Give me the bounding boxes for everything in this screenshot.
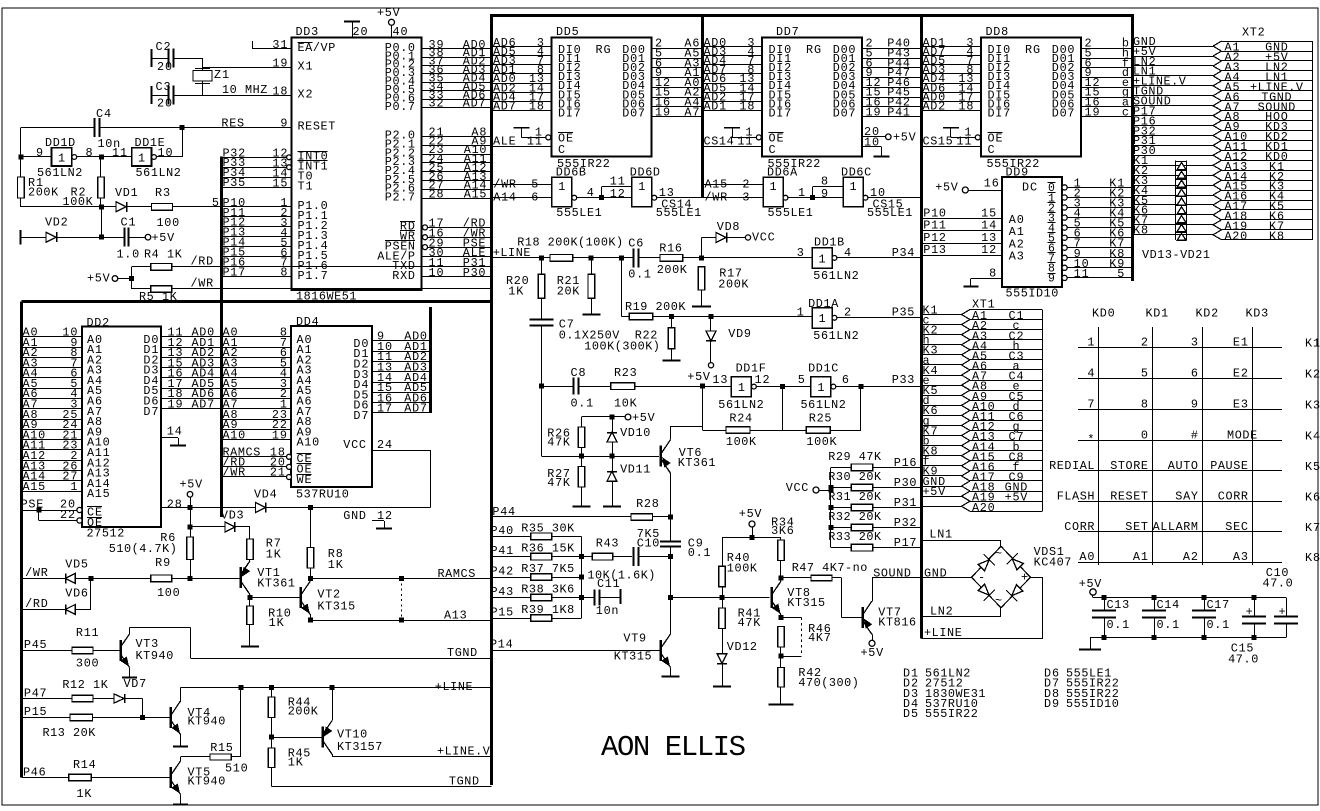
svg-text:7: 7 bbox=[1087, 398, 1094, 412]
svg-text:0.1: 0.1 bbox=[571, 397, 594, 411]
svg-text:1K: 1K bbox=[328, 558, 344, 572]
svg-text:R15: R15 bbox=[210, 741, 233, 755]
svg-text:P42: P42 bbox=[491, 565, 514, 579]
svg-text:VD7: VD7 bbox=[124, 677, 147, 691]
svg-text:28: 28 bbox=[167, 497, 182, 511]
svg-text:+5V: +5V bbox=[687, 370, 711, 384]
svg-text:561LN2: 561LN2 bbox=[813, 269, 858, 283]
svg-text:RESET: RESET bbox=[298, 120, 336, 134]
svg-text:561LN2: 561LN2 bbox=[813, 329, 858, 343]
svg-text:SAY: SAY bbox=[1175, 489, 1198, 503]
svg-text:P30: P30 bbox=[463, 266, 486, 280]
svg-text:A2: A2 bbox=[1183, 550, 1198, 564]
svg-text:19: 19 bbox=[1085, 105, 1100, 119]
svg-text:VCC: VCC bbox=[786, 481, 809, 495]
svg-text:VD1: VD1 bbox=[115, 186, 138, 200]
svg-text:12: 12 bbox=[755, 373, 770, 387]
svg-text:E2: E2 bbox=[1233, 366, 1248, 380]
svg-text:40: 40 bbox=[393, 25, 408, 39]
svg-text:561LN2: 561LN2 bbox=[136, 166, 181, 180]
svg-text:R24: R24 bbox=[729, 412, 752, 426]
svg-text:R36 15K: R36 15K bbox=[521, 542, 575, 556]
svg-text:561LN2: 561LN2 bbox=[37, 166, 82, 180]
svg-text:R47 4K7-no: R47 4K7-no bbox=[792, 561, 868, 575]
svg-text:~: ~ bbox=[995, 594, 1002, 608]
svg-text:DD8: DD8 bbox=[986, 25, 1009, 39]
svg-text:VD5: VD5 bbox=[65, 558, 88, 572]
svg-text:RESET: RESET bbox=[1110, 489, 1148, 503]
svg-text:A7: A7 bbox=[684, 105, 699, 119]
svg-text:DD3: DD3 bbox=[296, 25, 319, 39]
svg-text:D07: D07 bbox=[1052, 107, 1075, 121]
svg-text:200K: 200K bbox=[28, 186, 59, 200]
svg-text:100K: 100K bbox=[806, 435, 837, 449]
svg-text:REDIAL: REDIAL bbox=[1049, 459, 1094, 473]
svg-text:1: 1 bbox=[849, 180, 856, 194]
svg-text:18: 18 bbox=[739, 100, 754, 114]
svg-text:0: 0 bbox=[1141, 429, 1148, 443]
svg-text:C8: C8 bbox=[571, 366, 586, 380]
svg-text:3K6: 3K6 bbox=[771, 524, 794, 538]
svg-text:SET: SET bbox=[1125, 520, 1148, 534]
svg-text:VD12: VD12 bbox=[727, 640, 757, 654]
svg-text:11: 11 bbox=[112, 146, 127, 160]
svg-text:RG: RG bbox=[596, 43, 611, 57]
svg-text:K1: K1 bbox=[1305, 336, 1320, 350]
svg-text:DD9: DD9 bbox=[1006, 166, 1029, 180]
svg-text:KT3157: KT3157 bbox=[337, 740, 382, 754]
svg-text:AD2: AD2 bbox=[923, 100, 946, 114]
svg-text:C14: C14 bbox=[1157, 598, 1180, 612]
svg-text:FLASH: FLASH bbox=[1057, 489, 1095, 503]
svg-text:R31 20K: R31 20K bbox=[828, 490, 882, 504]
svg-text:5: 5 bbox=[1141, 366, 1148, 380]
svg-text:~: ~ bbox=[995, 547, 1002, 561]
svg-text:10K: 10K bbox=[614, 397, 638, 411]
svg-text:18: 18 bbox=[529, 100, 544, 114]
svg-text:1: 1 bbox=[818, 312, 825, 326]
svg-text:5: 5 bbox=[531, 177, 538, 191]
svg-text:+: + bbox=[1279, 606, 1286, 619]
svg-text:C10: C10 bbox=[637, 537, 660, 551]
svg-text:DD4: DD4 bbox=[296, 315, 319, 329]
svg-text:KT315: KT315 bbox=[317, 600, 355, 614]
svg-text:-: - bbox=[978, 571, 985, 585]
svg-text:CS15: CS15 bbox=[873, 198, 903, 212]
svg-text:16: 16 bbox=[984, 177, 999, 191]
svg-text:1K: 1K bbox=[76, 787, 92, 801]
svg-text:555ID10: 555ID10 bbox=[1066, 697, 1119, 711]
svg-text:A15: A15 bbox=[705, 177, 728, 191]
svg-text:100: 100 bbox=[157, 216, 180, 230]
svg-text:RG: RG bbox=[1025, 43, 1040, 57]
svg-text:CS14: CS14 bbox=[704, 135, 734, 149]
svg-text:9: 9 bbox=[280, 117, 287, 131]
svg-text:A0: A0 bbox=[1079, 550, 1094, 564]
svg-text:KD0: KD0 bbox=[1092, 307, 1115, 321]
svg-text:1K: 1K bbox=[266, 548, 282, 562]
svg-text:P17: P17 bbox=[894, 536, 917, 550]
svg-text:13: 13 bbox=[712, 373, 727, 387]
svg-text:P17: P17 bbox=[223, 265, 246, 279]
svg-text:KT816: KT816 bbox=[878, 616, 916, 630]
svg-text:1: 1 bbox=[738, 381, 745, 395]
svg-text:DD1C: DD1C bbox=[808, 362, 838, 376]
svg-text:+5V: +5V bbox=[87, 272, 111, 286]
svg-text:P1.7: P1.7 bbox=[298, 269, 328, 283]
svg-text:A10: A10 bbox=[223, 428, 246, 442]
svg-text:9: 9 bbox=[36, 146, 43, 160]
svg-text:1816WE51: 1816WE51 bbox=[296, 290, 357, 304]
svg-text:D9: D9 bbox=[1044, 697, 1059, 711]
svg-text:DI7: DI7 bbox=[988, 107, 1011, 121]
svg-text:ALE: ALE bbox=[493, 135, 516, 149]
svg-text:R3: R3 bbox=[155, 186, 170, 200]
svg-text:47K: 47K bbox=[738, 616, 762, 630]
svg-text:C: C bbox=[769, 143, 776, 157]
svg-text:RXD: RXD bbox=[392, 269, 415, 283]
svg-text:8: 8 bbox=[1141, 398, 1148, 412]
svg-text:KT940: KT940 bbox=[188, 715, 226, 729]
svg-text:+5V: +5V bbox=[632, 411, 656, 425]
svg-text:P35: P35 bbox=[892, 306, 915, 320]
svg-text:K6: K6 bbox=[1305, 490, 1320, 504]
svg-text:A3: A3 bbox=[1009, 250, 1024, 264]
svg-text:R29 47K: R29 47K bbox=[828, 450, 882, 464]
svg-text:STORE: STORE bbox=[1110, 459, 1148, 473]
svg-text:11: 11 bbox=[1074, 267, 1089, 281]
svg-text:P15: P15 bbox=[491, 606, 514, 620]
svg-text:E1: E1 bbox=[1233, 335, 1248, 349]
svg-text:510: 510 bbox=[225, 762, 248, 776]
svg-text:VD2: VD2 bbox=[45, 216, 68, 230]
svg-text:+5V: +5V bbox=[923, 485, 947, 499]
svg-text:C3: C3 bbox=[156, 80, 171, 94]
svg-text:CS14: CS14 bbox=[661, 198, 691, 212]
svg-text:R11: R11 bbox=[76, 626, 99, 640]
svg-text:/WR: /WR bbox=[223, 466, 246, 480]
svg-text:KD3: KD3 bbox=[1246, 307, 1269, 321]
svg-text:11: 11 bbox=[956, 135, 971, 149]
svg-text:537RU10: 537RU10 bbox=[296, 488, 349, 502]
svg-text:KT361: KT361 bbox=[678, 456, 716, 470]
svg-text:KC407: KC407 bbox=[1034, 556, 1072, 570]
svg-text:A1: A1 bbox=[1133, 550, 1148, 564]
svg-text:C17: C17 bbox=[1207, 598, 1230, 612]
svg-text:1: 1 bbox=[798, 186, 805, 200]
svg-text:300: 300 bbox=[76, 657, 99, 671]
svg-text:R19 200K: R19 200K bbox=[625, 300, 686, 314]
svg-text:DD5: DD5 bbox=[556, 25, 579, 39]
svg-text:R43: R43 bbox=[596, 537, 619, 551]
svg-text:47.0: 47.0 bbox=[1228, 653, 1258, 667]
svg-text:AD7: AD7 bbox=[404, 402, 427, 416]
svg-text:XT2: XT2 bbox=[1242, 26, 1265, 40]
svg-text:1: 1 bbox=[1087, 335, 1094, 349]
svg-text:1: 1 bbox=[138, 152, 145, 166]
svg-text:2: 2 bbox=[742, 177, 749, 191]
svg-text:E3: E3 bbox=[1233, 398, 1248, 412]
svg-text:VD13-VD21: VD13-VD21 bbox=[1142, 248, 1210, 262]
svg-text:GND: GND bbox=[924, 567, 947, 581]
svg-text:R38 3K6: R38 3K6 bbox=[521, 583, 574, 597]
svg-text:D5: D5 bbox=[903, 707, 918, 721]
svg-text:MODE: MODE bbox=[1227, 429, 1257, 443]
svg-text:DI7: DI7 bbox=[558, 107, 581, 121]
svg-text:+LINE.V: +LINE.V bbox=[437, 745, 491, 759]
svg-text:20: 20 bbox=[157, 97, 172, 111]
svg-text:11: 11 bbox=[737, 135, 752, 149]
svg-text:SEC: SEC bbox=[1225, 520, 1248, 534]
svg-text:19: 19 bbox=[272, 57, 287, 71]
svg-text:10: 10 bbox=[158, 146, 173, 160]
svg-text:19: 19 bbox=[866, 105, 881, 119]
svg-text:RAMCS: RAMCS bbox=[438, 567, 476, 581]
svg-text:R32 20K: R32 20K bbox=[828, 510, 882, 524]
svg-text:VD3: VD3 bbox=[221, 509, 244, 523]
svg-text:15: 15 bbox=[272, 176, 287, 190]
svg-text:KT315: KT315 bbox=[787, 596, 825, 610]
svg-text:561LN2: 561LN2 bbox=[718, 398, 763, 412]
svg-text:32: 32 bbox=[429, 97, 444, 111]
svg-text:A15: A15 bbox=[464, 187, 487, 201]
svg-text:470(300): 470(300) bbox=[798, 676, 859, 690]
svg-text:CORR: CORR bbox=[1064, 520, 1094, 534]
svg-text:+5V: +5V bbox=[377, 6, 401, 20]
svg-text:*: * bbox=[1087, 433, 1094, 447]
svg-text:X2: X2 bbox=[298, 88, 313, 102]
svg-text:KD1: KD1 bbox=[1146, 307, 1169, 321]
svg-text:KT361: KT361 bbox=[257, 577, 295, 591]
svg-text:GND: GND bbox=[343, 509, 366, 523]
svg-text:RES: RES bbox=[221, 117, 244, 131]
svg-text:K5: K5 bbox=[1305, 460, 1320, 474]
svg-text:3: 3 bbox=[1191, 335, 1198, 349]
svg-text:R35 30K: R35 30K bbox=[521, 521, 575, 535]
svg-text:19: 19 bbox=[272, 428, 287, 442]
svg-text:+5V: +5V bbox=[152, 231, 176, 245]
svg-text:4: 4 bbox=[844, 246, 851, 260]
svg-text:1: 1 bbox=[638, 180, 645, 194]
svg-text:R30 20K: R30 20K bbox=[828, 470, 882, 484]
svg-text:C4: C4 bbox=[96, 107, 111, 121]
svg-text:18: 18 bbox=[958, 100, 973, 114]
svg-text:PAUSE: PAUSE bbox=[1210, 459, 1248, 473]
svg-text:P33: P33 bbox=[892, 373, 915, 387]
svg-text:1: 1 bbox=[558, 180, 565, 194]
svg-text:1.0: 1.0 bbox=[117, 248, 140, 262]
svg-text:R4 1K: R4 1K bbox=[144, 248, 183, 262]
svg-text:Z1: Z1 bbox=[214, 68, 229, 82]
svg-text:C1: C1 bbox=[121, 216, 136, 230]
svg-text:K3: K3 bbox=[1305, 399, 1320, 413]
svg-text:1K: 1K bbox=[269, 616, 285, 630]
svg-text:AD1: AD1 bbox=[704, 100, 727, 114]
svg-text:A15: A15 bbox=[23, 480, 46, 494]
svg-text:21: 21 bbox=[270, 466, 285, 480]
svg-text:D7: D7 bbox=[143, 405, 158, 419]
svg-text:200K: 200K bbox=[657, 263, 688, 277]
svg-text:200K: 200K bbox=[718, 278, 749, 292]
svg-text:/WR: /WR bbox=[705, 190, 728, 204]
svg-text:KT315: KT315 bbox=[614, 650, 652, 664]
svg-text:AUTO: AUTO bbox=[1168, 459, 1198, 473]
svg-text:555LE1: 555LE1 bbox=[768, 206, 813, 220]
svg-text:200K: 200K bbox=[288, 705, 319, 719]
svg-text:AON ELLIS: AON ELLIS bbox=[601, 731, 746, 764]
svg-text:D07: D07 bbox=[833, 107, 856, 121]
svg-text:TGND: TGND bbox=[449, 775, 479, 789]
svg-text:A15: A15 bbox=[87, 487, 110, 501]
svg-text:/RD: /RD bbox=[191, 255, 214, 269]
svg-text:2: 2 bbox=[844, 306, 851, 320]
svg-text:R18 200K(100K): R18 200K(100K) bbox=[517, 236, 623, 250]
svg-text:8: 8 bbox=[280, 266, 287, 280]
svg-text:SOUND: SOUND bbox=[873, 567, 911, 581]
svg-text:4: 4 bbox=[587, 186, 594, 200]
svg-text:P2.7: P2.7 bbox=[385, 191, 415, 205]
svg-text:510(4.7K): 510(4.7K) bbox=[109, 542, 177, 556]
svg-text:VCC: VCC bbox=[343, 438, 366, 452]
svg-text:0.1: 0.1 bbox=[1107, 618, 1130, 632]
svg-text:14: 14 bbox=[167, 425, 182, 439]
svg-text:8: 8 bbox=[86, 146, 93, 160]
svg-text:c: c bbox=[1122, 105, 1129, 119]
svg-text:2: 2 bbox=[1141, 335, 1148, 349]
svg-text:K2: K2 bbox=[1305, 367, 1320, 381]
svg-text:5: 5 bbox=[798, 373, 805, 387]
svg-text:R16: R16 bbox=[659, 242, 682, 256]
svg-text:561LN2: 561LN2 bbox=[801, 398, 846, 412]
svg-text:VCC: VCC bbox=[752, 231, 775, 245]
svg-text:P35: P35 bbox=[223, 176, 246, 190]
svg-text:R14: R14 bbox=[73, 758, 96, 772]
svg-text:/WR: /WR bbox=[493, 177, 516, 191]
svg-text:555LE1: 555LE1 bbox=[556, 206, 601, 220]
svg-text:R12 1K: R12 1K bbox=[62, 678, 108, 692]
svg-text:100K(300K): 100K(300K) bbox=[584, 340, 660, 354]
svg-text:VD6: VD6 bbox=[65, 587, 88, 601]
svg-text:VD10: VD10 bbox=[620, 426, 650, 440]
svg-text:/WR: /WR bbox=[191, 277, 214, 291]
svg-text:AD7: AD7 bbox=[463, 97, 486, 111]
svg-text:P41: P41 bbox=[887, 105, 910, 119]
svg-text:A20: A20 bbox=[972, 501, 995, 515]
svg-text:X1: X1 bbox=[298, 60, 313, 74]
svg-text:+5V: +5V bbox=[1079, 577, 1103, 591]
svg-text:11: 11 bbox=[527, 135, 542, 149]
svg-text:R25: R25 bbox=[809, 412, 832, 426]
svg-text:3: 3 bbox=[742, 190, 749, 204]
svg-text:+5V: +5V bbox=[893, 131, 917, 145]
svg-text:555IR22: 555IR22 bbox=[925, 707, 978, 721]
svg-text:R5 1K: R5 1K bbox=[139, 290, 178, 304]
svg-text:D7: D7 bbox=[353, 409, 368, 423]
svg-text:A20: A20 bbox=[1225, 229, 1248, 243]
svg-text:100: 100 bbox=[157, 586, 180, 600]
svg-text:6: 6 bbox=[531, 190, 538, 204]
svg-text:47.0: 47.0 bbox=[1263, 577, 1293, 591]
svg-text:47K: 47K bbox=[547, 476, 571, 490]
svg-text:A10: A10 bbox=[297, 436, 320, 450]
svg-text:LN1: LN1 bbox=[929, 528, 952, 542]
svg-text:28: 28 bbox=[429, 187, 444, 201]
svg-text:1: 1 bbox=[818, 252, 825, 266]
svg-text:DC: DC bbox=[1022, 181, 1037, 195]
svg-text:KT940: KT940 bbox=[188, 775, 226, 789]
svg-text:R37 7K5: R37 7K5 bbox=[521, 562, 574, 576]
svg-text:+5V: +5V bbox=[861, 646, 885, 660]
svg-text:R9: R9 bbox=[155, 556, 170, 570]
svg-text:+5V: +5V bbox=[935, 181, 959, 195]
svg-text:20: 20 bbox=[353, 25, 368, 39]
svg-text:9: 9 bbox=[821, 187, 828, 201]
svg-text:P30: P30 bbox=[894, 476, 917, 490]
svg-text:VD8: VD8 bbox=[717, 220, 740, 234]
svg-text:AD7: AD7 bbox=[493, 100, 516, 114]
svg-text:+LINE: +LINE bbox=[435, 680, 473, 694]
svg-text:1: 1 bbox=[70, 480, 77, 494]
svg-text:R33 20K: R33 20K bbox=[828, 530, 882, 544]
svg-text:0.1: 0.1 bbox=[628, 268, 651, 282]
svg-text:P31: P31 bbox=[894, 496, 917, 510]
svg-text:0.1: 0.1 bbox=[688, 546, 711, 560]
svg-text:CS15: CS15 bbox=[923, 135, 953, 149]
svg-text:1K: 1K bbox=[288, 756, 304, 770]
svg-text:47K: 47K bbox=[547, 436, 571, 450]
svg-text:R39 1K8: R39 1K8 bbox=[521, 603, 574, 617]
svg-text:+: + bbox=[1246, 606, 1253, 619]
svg-text:DD1D: DD1D bbox=[45, 136, 75, 150]
svg-text:4K7: 4K7 bbox=[808, 631, 831, 645]
svg-text:R23: R23 bbox=[614, 366, 637, 380]
svg-text:#: # bbox=[1191, 429, 1198, 443]
svg-text:1: 1 bbox=[769, 180, 776, 194]
svg-text:1: 1 bbox=[817, 381, 824, 395]
svg-text:A14: A14 bbox=[493, 190, 516, 204]
svg-text:3: 3 bbox=[797, 246, 804, 260]
svg-text:K4: K4 bbox=[1305, 430, 1320, 444]
svg-text:VT9: VT9 bbox=[623, 632, 646, 646]
svg-text:9: 9 bbox=[1191, 398, 1198, 412]
svg-text:AD7: AD7 bbox=[192, 398, 215, 412]
svg-text:DI7: DI7 bbox=[769, 107, 792, 121]
svg-text:100K: 100K bbox=[727, 562, 758, 576]
svg-text:P16: P16 bbox=[894, 456, 917, 470]
svg-text:31: 31 bbox=[272, 38, 287, 52]
svg-text:RG: RG bbox=[806, 43, 821, 57]
svg-text:KD2: KD2 bbox=[1196, 307, 1219, 321]
svg-text:R13 20K: R13 20K bbox=[43, 726, 97, 740]
svg-text:TGND: TGND bbox=[447, 646, 477, 660]
svg-text:10: 10 bbox=[864, 136, 879, 150]
svg-text:9: 9 bbox=[1048, 273, 1055, 286]
svg-text:0.1: 0.1 bbox=[1157, 618, 1180, 632]
svg-text:19: 19 bbox=[168, 398, 183, 412]
svg-text:22: 22 bbox=[60, 508, 75, 522]
svg-text:+: + bbox=[1021, 571, 1028, 585]
svg-text:P34: P34 bbox=[892, 246, 915, 260]
svg-text:5: 5 bbox=[1117, 267, 1124, 281]
svg-text:C13: C13 bbox=[1107, 598, 1130, 612]
svg-text:0.1: 0.1 bbox=[1207, 618, 1230, 632]
svg-text:1: 1 bbox=[58, 152, 65, 166]
svg-text:ALLARM: ALLARM bbox=[1153, 520, 1198, 534]
svg-text:+5V: +5V bbox=[739, 507, 763, 521]
svg-text:A3: A3 bbox=[1233, 550, 1248, 564]
svg-text:6: 6 bbox=[842, 373, 849, 387]
svg-text:+5V: +5V bbox=[180, 478, 204, 492]
